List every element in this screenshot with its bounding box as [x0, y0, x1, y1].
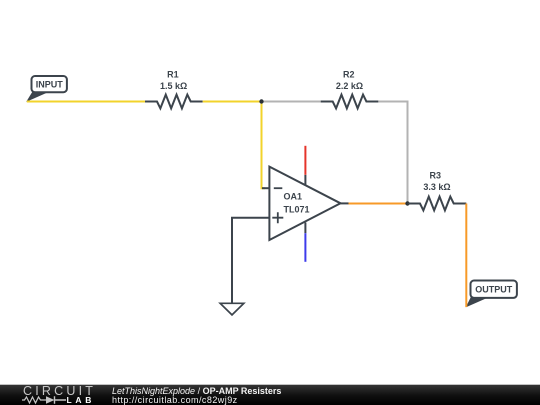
INPUT flag: [32, 76, 67, 92]
svg-text:1.5 kΩ: 1.5 kΩ: [160, 81, 187, 91]
svg-text:2.2 kΩ: 2.2 kΩ: [336, 81, 363, 91]
CircuitLab logo wordmark: [23, 387, 96, 396]
op-amp OA1 V- pin stub: [304, 223, 306, 234]
CircuitLab logo LAB text: [67, 396, 96, 405]
footer bar: [0, 384, 540, 405]
wire input net yellow: R1 to junction, down to op-amp inverting input: [203, 102, 265, 189]
output flag tail: [466, 297, 487, 308]
wire input net yellow: INPUT to R1: [27, 101, 145, 103]
op-amp OA1 output pin stub: [341, 202, 349, 204]
svg-text:INPUT: INPUT: [36, 80, 64, 90]
wire non-inverting input to ground: [232, 218, 269, 304]
svg-text:OUTPUT: OUTPUT: [475, 285, 513, 295]
wire output net orange: R3 down to OUTPUT: [465, 204, 467, 308]
node junction B (output/R3): [405, 201, 409, 205]
op-amp OA1 inverting pin stub: [262, 187, 269, 189]
svg-text:OA1: OA1: [284, 192, 303, 202]
node junction A (R1/R2/op-amp): [259, 99, 263, 103]
resistor R3: [408, 197, 467, 211]
wire output net orange: op-amp to junction: [349, 203, 408, 205]
op-amp OA1 minus symbol: [274, 187, 283, 189]
svg-text:3.3 kΩ: 3.3 kΩ: [423, 182, 450, 192]
input flag tail: [26, 92, 48, 102]
svg-text:R2: R2: [343, 70, 355, 80]
footer title line: [112, 387, 281, 396]
svg-text:R3: R3: [430, 171, 442, 181]
resistor R2: [321, 95, 379, 109]
CircuitLab logo resistor-diode glyph: [21, 395, 67, 405]
wire V+ supply red: [304, 146, 306, 175]
OUTPUT flag: [471, 281, 517, 298]
resistor R1: [145, 95, 203, 109]
wire feedback net gray: R2 to output junction: [378, 102, 407, 204]
op-amp OA1 plus symbol: [272, 212, 283, 223]
footer url line: [112, 396, 238, 405]
svg-text:R1: R1: [167, 70, 179, 80]
svg-text:TL071: TL071: [284, 205, 310, 215]
op-amp U1 OA1 body: [269, 167, 340, 240]
ground: [220, 303, 244, 315]
wire V- supply blue: [304, 233, 306, 262]
op-amp OA1 V+ pin stub: [304, 175, 306, 186]
wire feedback net gray: junction to R2: [262, 101, 321, 103]
